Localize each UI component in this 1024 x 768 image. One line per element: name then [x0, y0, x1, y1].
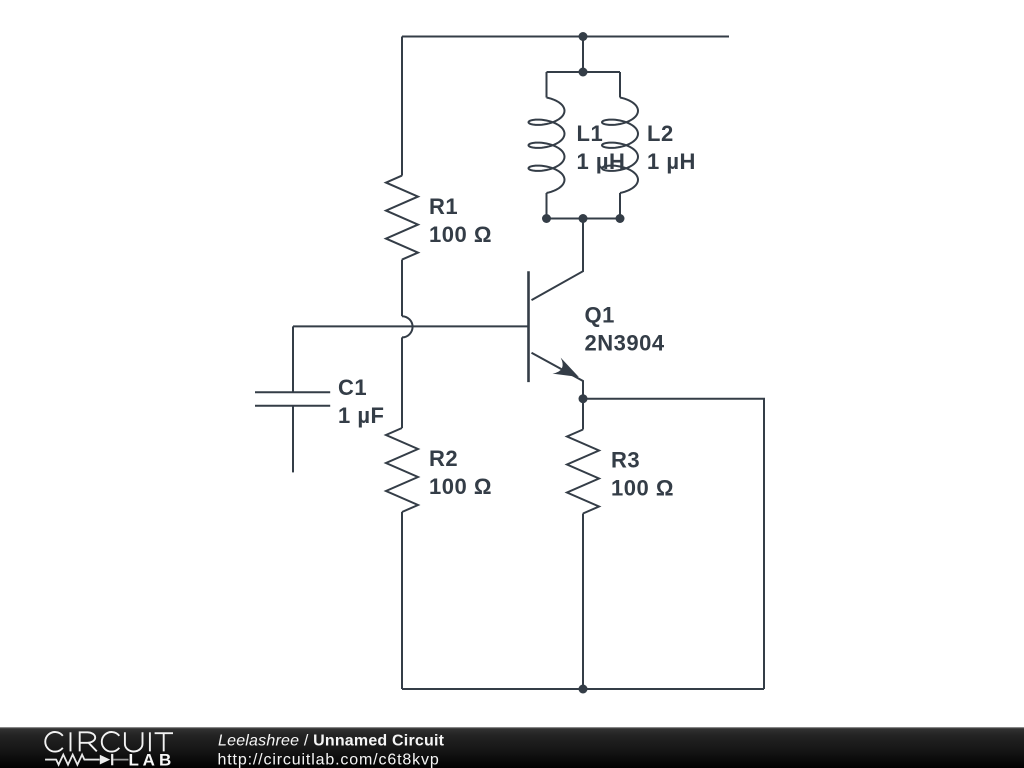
- svg-text:100 Ω: 100 Ω: [611, 476, 674, 501]
- logo letter R: [80, 732, 97, 751]
- svg-text:100 Ω: 100 Ω: [429, 222, 492, 247]
- wire: L2 top lead: [619, 72, 621, 98]
- svg-text:http://circuitlab.com/c6t8kvp: http://circuitlab.com/c6t8kvp: [218, 751, 440, 768]
- node: tank top junction: [579, 68, 588, 77]
- wire: L1 top lead: [546, 72, 548, 98]
- wire: hop to R2: [401, 337, 403, 428]
- wire: top junction drop to tank: [582, 37, 584, 73]
- wire: collector lead from tank: [532, 219, 584, 301]
- wire: tank bottom rail: [547, 218, 621, 220]
- svg-text:R3: R3: [611, 448, 640, 473]
- resistor R3: [567, 430, 599, 514]
- svg-text:100 Ω: 100 Ω: [429, 474, 492, 499]
- svg-text:B: B: [159, 751, 171, 768]
- svg-text:1 µF: 1 µF: [338, 403, 384, 428]
- logo wire: [45, 759, 128, 761]
- footer bar: [0, 727, 1024, 768]
- wire: R2 bottom lead: [401, 512, 403, 689]
- logo resistor zigzag: [45, 755, 100, 765]
- logo letter U: [125, 732, 143, 751]
- svg-text:1 µH: 1 µH: [577, 149, 626, 174]
- svg-text:R2: R2: [429, 446, 458, 471]
- wire hop over base wire: [402, 316, 413, 337]
- logo letter I: [70, 732, 72, 751]
- wire: base wire from C1: [293, 325, 529, 327]
- logo diode: [100, 755, 110, 765]
- svg-text:C1: C1: [338, 375, 367, 400]
- node: tank bottom right junction: [616, 214, 625, 223]
- node: bottom rail junction: [579, 685, 588, 694]
- capacitor C1 plates: [255, 391, 330, 393]
- svg-text:R1: R1: [429, 194, 458, 219]
- transistor Q1 base bar: [527, 271, 530, 382]
- wire: tank top rail: [547, 71, 621, 73]
- svg-text:2N3904: 2N3904: [585, 331, 665, 356]
- transistor Q1 emitter arrow: [553, 358, 579, 377]
- svg-text:L2: L2: [647, 121, 674, 146]
- wire: R1 to hop: [401, 260, 403, 317]
- capacitor C1 top lead: [292, 326, 294, 392]
- svg-text:L: L: [129, 751, 139, 768]
- svg-text:A: A: [143, 751, 155, 768]
- wire: top rail: [402, 36, 729, 38]
- node: tank bottom center junction: [579, 214, 588, 223]
- wire: bottom rail: [402, 688, 764, 690]
- svg-text:L1: L1: [577, 121, 604, 146]
- transistor Q1 emitter: [532, 353, 584, 399]
- logo letter C: [102, 732, 120, 752]
- node: tank bottom left junction: [542, 214, 551, 223]
- svg-text:Q1: Q1: [585, 303, 615, 328]
- capacitor C1 bottom lead: [292, 406, 294, 473]
- wire: L2 bottom lead: [619, 193, 621, 219]
- node: emitter junction: [579, 394, 588, 403]
- resistor R1: [386, 176, 418, 260]
- svg-text:Leelashree / Unnamed Circuit: Leelashree / Unnamed Circuit: [218, 732, 445, 749]
- node: supply rail junction: [579, 32, 588, 41]
- logo letter T: [155, 732, 173, 751]
- inductor L1: [529, 98, 565, 194]
- inductor L2: [602, 98, 638, 194]
- wire: emitter node to right rail: [583, 399, 764, 689]
- wire: left rail top: [401, 37, 403, 176]
- wire: R3 bottom lead: [582, 514, 584, 690]
- resistor R2: [386, 428, 418, 512]
- wire: R3 top lead: [582, 399, 584, 430]
- logo letter C: [45, 732, 63, 752]
- logo letter I: [149, 732, 151, 751]
- svg-text:1 µH: 1 µH: [647, 149, 696, 174]
- wire: L1 bottom lead: [546, 193, 548, 219]
